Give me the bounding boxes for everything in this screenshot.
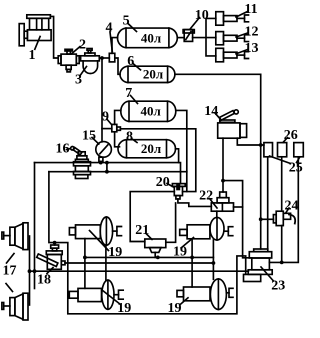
shutoff valve 18 xyxy=(37,245,65,269)
coupling 26 down to 24 xyxy=(281,157,283,211)
main supply line tank6 to right frame xyxy=(175,74,261,249)
label 25 leaders xyxy=(270,156,291,164)
label 19 bl leader xyxy=(102,290,121,305)
svg-text:26: 26 xyxy=(284,128,298,143)
svg-text:10: 10 xyxy=(195,8,209,23)
18 feed dot xyxy=(53,241,57,245)
label 3 leader xyxy=(81,67,87,76)
svg-text:19: 19 xyxy=(117,301,131,316)
svg-text:40л: 40л xyxy=(140,103,160,118)
valve 24 xyxy=(273,211,295,225)
svg-text:11: 11 xyxy=(244,2,257,17)
label 1 leader xyxy=(35,37,40,50)
svg-text:12: 12 xyxy=(245,25,259,40)
svg-text:6: 6 xyxy=(127,54,134,69)
svg-text:5: 5 xyxy=(123,14,130,29)
wire 9 right long line to valve 20 xyxy=(120,129,195,192)
wire 20 bottom to 22 xyxy=(178,199,211,206)
tank 7 xyxy=(121,101,176,121)
label 10 leader xyxy=(191,18,200,29)
valve 2 xyxy=(58,49,79,72)
label 23 leader xyxy=(261,267,274,281)
line y172 from inner corner to cross xyxy=(49,171,187,173)
horn 17 lower xyxy=(2,293,28,320)
label 24 leader xyxy=(286,208,289,213)
svg-text:23: 23 xyxy=(271,279,285,294)
svg-text:19: 19 xyxy=(168,301,182,316)
valve 20 xyxy=(172,184,185,199)
label 13 leader xyxy=(236,50,248,54)
brake chamber 19 bottom-left xyxy=(69,280,123,309)
coupling head 25b xyxy=(294,143,304,157)
wire 20 left to 21 xyxy=(130,192,174,242)
bridge between lines xyxy=(106,163,108,172)
valve 22 xyxy=(211,192,233,211)
label 6 leader xyxy=(133,64,141,70)
wire 14 to coupling line xyxy=(237,138,264,145)
svg-text:21: 21 xyxy=(135,223,149,238)
chamber mr body feed xyxy=(191,239,193,287)
svg-text:24: 24 xyxy=(285,198,299,213)
coupling 25a down to 23 xyxy=(267,157,269,249)
svg-text:3: 3 xyxy=(75,73,82,88)
filter 3 xyxy=(81,49,100,74)
wire 20 branch down to 21 xyxy=(166,203,176,242)
horn 17 upper xyxy=(2,223,28,250)
svg-text:40л: 40л xyxy=(141,30,161,45)
label 7 leader xyxy=(131,96,138,104)
line B xyxy=(65,262,213,264)
svg-text:8: 8 xyxy=(126,130,133,145)
brake unit 12 xyxy=(216,32,249,45)
svg-text:22: 22 xyxy=(199,189,213,204)
svg-text:20: 20 xyxy=(156,175,170,190)
gauge 15 xyxy=(96,142,112,162)
label 17 leaders xyxy=(7,254,15,264)
wire 2 to 3 xyxy=(79,57,80,59)
junction dot xyxy=(100,56,104,60)
label 21 leader xyxy=(146,234,152,240)
label 19 br leader xyxy=(181,298,188,304)
distribution bus xyxy=(206,18,216,56)
chamber ml body feed xyxy=(84,239,86,289)
label 18 leader xyxy=(47,268,53,274)
compressor 1 xyxy=(19,15,51,46)
svg-text:14: 14 xyxy=(204,104,218,119)
brake unit 11 xyxy=(216,12,249,26)
wire 4 to tank 5 xyxy=(112,38,118,54)
label 8 leader xyxy=(132,139,138,143)
chamber ml ellipse link down xyxy=(105,245,107,280)
svg-text:16: 16 xyxy=(56,142,70,157)
hand brake valve 14 xyxy=(218,110,247,138)
24 bottom down xyxy=(281,226,283,263)
label 26 leader xyxy=(283,138,288,143)
svg-text:20л: 20л xyxy=(143,67,163,82)
label 12 leader xyxy=(236,33,248,37)
wire tank5 to 10 xyxy=(177,37,184,39)
wire down to gauge xyxy=(101,58,103,142)
brake unit 13 xyxy=(216,48,249,62)
wire 22 right to down-line xyxy=(234,206,243,208)
wire compressor to valve 2 xyxy=(50,16,58,58)
svg-text:2: 2 xyxy=(79,38,86,53)
chamber mr ellipse link down xyxy=(212,240,214,279)
svg-text:1: 1 xyxy=(29,48,36,63)
horn link vertical xyxy=(29,236,31,305)
label 2 leader xyxy=(72,47,81,54)
tank 5 xyxy=(117,28,177,48)
label 22 leader xyxy=(210,199,218,209)
wire tank8 down to line xyxy=(176,149,179,163)
svg-text:19: 19 xyxy=(108,245,122,260)
svg-text:13: 13 xyxy=(245,41,259,56)
label 20 leader xyxy=(167,184,174,188)
branch 14line to 23 xyxy=(223,181,252,258)
air distributor 23 xyxy=(244,249,273,282)
brake chamber 19 mid-right xyxy=(180,217,233,240)
tank 8 xyxy=(118,140,176,158)
svg-text:15: 15 xyxy=(82,129,96,144)
wire 9 to tank 8 xyxy=(115,132,120,147)
label 5 leader xyxy=(128,24,137,32)
label 15 leader xyxy=(92,138,99,145)
tee to valve 24 xyxy=(261,218,274,220)
brake chamber 19 bottom-right xyxy=(177,279,233,310)
wire 3 to 4 xyxy=(99,57,109,59)
wire 22 to chamber ellipse xyxy=(216,211,218,217)
label 14 leader xyxy=(215,113,221,120)
svg-text:18: 18 xyxy=(37,272,51,287)
valve 16 xyxy=(71,147,91,179)
coupling 25b down xyxy=(269,157,298,263)
svg-text:9: 9 xyxy=(102,110,109,125)
valve 4 xyxy=(109,53,115,62)
wire 9 left elbow xyxy=(102,128,112,130)
svg-text:17: 17 xyxy=(3,264,17,279)
svg-text:7: 7 xyxy=(125,86,132,101)
outer frame left vertical xyxy=(34,163,36,289)
brake chamber 19 mid-left xyxy=(69,217,121,245)
svg-text:19: 19 xyxy=(173,245,187,260)
valve 10 xyxy=(183,30,194,42)
wire tank7 right down xyxy=(176,110,187,191)
wire tank7 to 9 xyxy=(115,110,121,124)
wire 14 to 22 xyxy=(222,138,224,192)
coupling head 25a xyxy=(264,143,273,157)
svg-text:25: 25 xyxy=(289,161,303,176)
wire 10 to bus xyxy=(193,37,216,39)
svg-text:20л: 20л xyxy=(141,141,161,156)
label 19 ml leader xyxy=(90,231,109,251)
label 9 leader xyxy=(107,120,111,125)
inner frame path xyxy=(49,172,246,314)
label 11 leader xyxy=(236,12,248,18)
line C xyxy=(30,270,249,272)
line A xyxy=(85,256,214,258)
coupling head 26 xyxy=(278,143,287,157)
svg-text:4: 4 xyxy=(106,21,113,36)
valve 9 xyxy=(112,124,121,131)
line y162 from frame corner to valve 20 top xyxy=(35,163,181,184)
label 19 mr leader xyxy=(181,238,194,249)
tank 6 xyxy=(120,66,175,82)
label 16 leader xyxy=(67,149,71,150)
valve 21 xyxy=(145,239,166,257)
label 4 leader xyxy=(110,32,112,52)
wire 4 to tank 6 xyxy=(115,58,120,74)
